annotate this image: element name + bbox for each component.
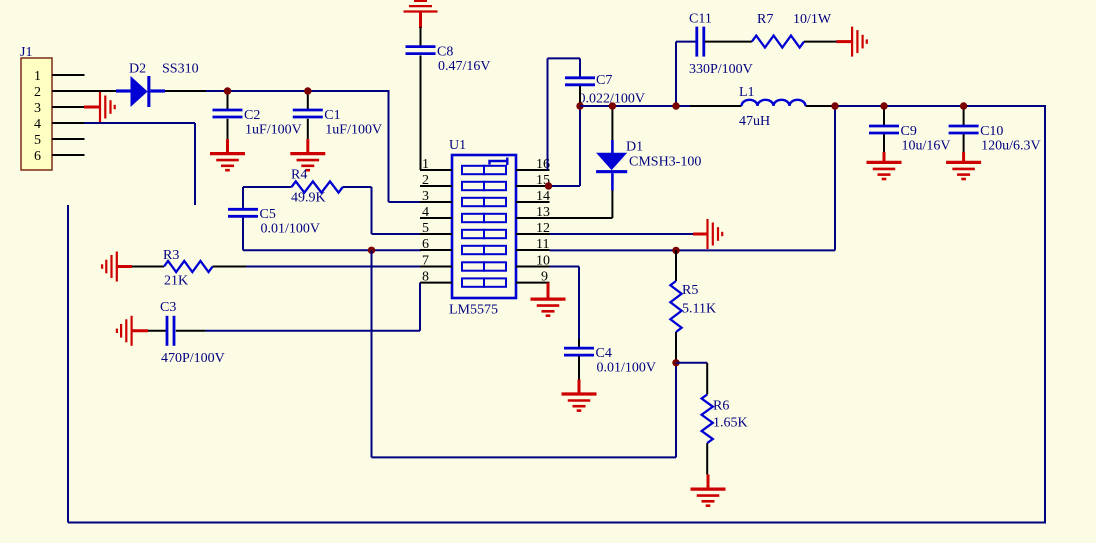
svg-text:330P/100V: 330P/100V (689, 62, 753, 77)
wire left side down (67, 205, 69, 523)
ground above C8 (inverted) (404, 10, 438, 12)
ground at R7 (837, 40, 853, 43)
svg-text:J1: J1 (20, 45, 32, 60)
wire R7 to ground (804, 41, 837, 43)
svg-text:0.01/100V: 0.01/100V (261, 222, 321, 237)
capacitor C8 (420, 27, 422, 46)
diode D2 (116, 89, 131, 92)
svg-text:3: 3 (422, 189, 429, 204)
wire right side up (1044, 106, 1046, 523)
svg-text:120u/6.3V: 120u/6.3V (981, 138, 1041, 153)
svg-text:3: 3 (34, 101, 41, 116)
diode D1 (611, 106, 613, 140)
svg-text:C9: C9 (901, 124, 917, 139)
svg-text:5: 5 (34, 133, 41, 148)
svg-text:D1: D1 (626, 140, 643, 155)
node: junction pin6 feedback (368, 247, 375, 254)
U1 pin 12 (516, 233, 550, 235)
capacitor C1 (307, 91, 309, 109)
U1 pin 15 (516, 185, 550, 187)
U1 internal pad row (462, 230, 484, 238)
resistor R3 (132, 266, 164, 268)
node: junction D2/C2 (224, 87, 231, 94)
svg-text:9: 9 (541, 270, 548, 285)
svg-text:C11: C11 (689, 12, 712, 27)
node: junction rail/C10 (960, 102, 967, 109)
U1 pin 16 (516, 169, 550, 171)
node: junction pin15 (545, 182, 552, 189)
ground under C2 (226, 139, 229, 154)
U1 pin 10 (516, 266, 550, 268)
svg-text:12: 12 (536, 221, 550, 236)
ground under R6 (707, 474, 710, 489)
U1 internal pad row (462, 246, 484, 254)
U1 pin 14 (516, 201, 550, 203)
capacitor C5 (242, 187, 244, 208)
wire C8 to U1 pin1 (420, 55, 422, 170)
node: junction pin11/R5 (672, 247, 679, 254)
ground under C10 (962, 152, 965, 163)
capacitor C11 (695, 27, 698, 57)
resistor R5 (675, 250, 677, 281)
svg-text:C1: C1 (324, 108, 340, 123)
svg-text:1uF/100V: 1uF/100V (245, 122, 302, 137)
wire pin12 to ground (550, 233, 694, 235)
wire pin10 to C4 (550, 266, 580, 268)
wire J1 pin2 to D2 (84, 90, 116, 92)
U1 internal pad row (462, 278, 484, 286)
capacitor C7 (565, 76, 595, 79)
wire pin16 to C7 (547, 58, 549, 170)
wire pin11 to output (550, 249, 836, 251)
svg-text:0.47/16V: 0.47/16V (438, 59, 491, 74)
wire bottom rail (68, 522, 1046, 524)
svg-text:0.01/100V: 0.01/100V (597, 361, 657, 376)
wire C3 to U1 pin8 (176, 330, 206, 332)
capacitor C3 (148, 330, 167, 332)
ground at R3 (116, 252, 118, 282)
capacitor C9 (883, 106, 885, 125)
ground at J1 pin3 (84, 106, 100, 109)
U1 pin 9 (516, 282, 550, 284)
capacitor C10 (963, 106, 965, 125)
svg-text:2: 2 (422, 173, 429, 188)
node: junction rail/C11 (672, 102, 679, 109)
ground at pin12 (693, 233, 708, 236)
wire D1 to pin13 (611, 173, 614, 190)
J1 pin stub (52, 106, 85, 108)
svg-text:R7: R7 (757, 12, 773, 27)
U1 pin 13 (516, 217, 550, 219)
U1 pin 6 (420, 249, 452, 251)
svg-text:LM5575: LM5575 (449, 303, 498, 318)
capacitor C2 (227, 91, 229, 109)
U1 pin 2 (420, 185, 452, 187)
wire R5 node to R6 (676, 362, 707, 364)
resistor R6 (706, 363, 708, 395)
svg-text:6: 6 (422, 237, 429, 252)
U1 pin 3 (420, 201, 452, 203)
svg-text:L1: L1 (739, 85, 755, 100)
svg-text:SS310: SS310 (162, 62, 199, 77)
svg-text:C5: C5 (260, 207, 276, 222)
wire R4 right to U1 pin5 (371, 187, 373, 234)
U1 internal pad row (462, 166, 484, 174)
node: junction rail/pin11 (831, 102, 838, 109)
U1 pin 8 (420, 282, 452, 284)
wire pin15 to rail under C7 (550, 185, 581, 187)
svg-text:1: 1 (422, 157, 429, 172)
node: junction C7/SW rail (576, 102, 583, 109)
svg-text:R6: R6 (713, 399, 729, 414)
U1 internal pad row (462, 214, 484, 222)
U1 pin 7 (420, 266, 452, 268)
connector J1 (21, 58, 52, 170)
wire down to U1 pin3 (388, 91, 390, 202)
svg-text:1: 1 (34, 69, 41, 84)
svg-text:470P/100V: 470P/100V (161, 351, 225, 366)
U1 pin 1 (420, 169, 452, 171)
J1 pin stub (52, 122, 85, 124)
op-amp U1 (LM5575 regulator) body (452, 155, 516, 298)
svg-text:D2: D2 (129, 62, 146, 77)
U1 internal pad row (462, 198, 484, 206)
svg-text:C4: C4 (596, 346, 612, 361)
node: junction R5/R6 (672, 359, 679, 366)
ground at C3 (131, 316, 133, 346)
resistor R7 (752, 36, 804, 48)
ground under C9 (883, 152, 886, 163)
svg-text:8: 8 (422, 270, 429, 285)
svg-text:10u/16V: 10u/16V (902, 138, 951, 153)
wire J1 pin4 (VIN- loop) (84, 122, 195, 124)
svg-text:47uH: 47uH (739, 114, 770, 129)
svg-text:11: 11 (536, 237, 549, 252)
wire R3 to U1 pin7 (213, 266, 246, 268)
node: junction D2/C1 (304, 87, 311, 94)
node: junction rail/C9 (880, 102, 887, 109)
svg-text:10: 10 (536, 254, 550, 269)
svg-text:C2: C2 (244, 108, 260, 123)
wire C11 to R7 (705, 41, 752, 43)
J1 pin stub (52, 154, 85, 156)
svg-text:49.9K: 49.9K (291, 191, 326, 206)
U1 pin 4 (420, 217, 452, 219)
ground under C1 (306, 139, 309, 154)
U1 pin-1 mark (490, 158, 508, 166)
svg-text:C8: C8 (437, 45, 453, 60)
wire up to R5/R6 node (675, 363, 677, 458)
svg-text:5.11K: 5.11K (682, 302, 716, 317)
svg-text:13: 13 (536, 205, 550, 220)
svg-text:4: 4 (422, 205, 429, 220)
svg-text:1uF/100V: 1uF/100V (325, 122, 382, 137)
svg-text:1.65K: 1.65K (713, 416, 748, 431)
svg-text:R4: R4 (291, 168, 307, 183)
SW output rail (580, 105, 690, 107)
svg-text:CMSH3-100: CMSH3-100 (629, 155, 701, 170)
wire down from pin6 node (371, 250, 373, 457)
ground at pin9 (547, 283, 550, 300)
J1 pin stub (52, 74, 85, 76)
svg-text:5: 5 (422, 221, 429, 236)
svg-text:U1: U1 (449, 138, 466, 153)
svg-text:C10: C10 (980, 124, 1003, 139)
svg-text:14: 14 (536, 189, 550, 204)
wire bottom feedback (372, 456, 677, 458)
wire rail to C11 (675, 42, 677, 106)
J1 pin stub (52, 138, 85, 140)
svg-text:R5: R5 (682, 283, 698, 298)
U1 pin 5 (420, 233, 452, 235)
wire D2 to C2/C1 (165, 90, 206, 92)
node: junction D1/rail (609, 102, 616, 109)
wire (194, 123, 196, 205)
svg-text:4: 4 (34, 117, 41, 132)
svg-text:7: 7 (422, 254, 429, 269)
U1 internal pad row (462, 182, 484, 190)
capacitor C4 (564, 347, 594, 350)
svg-text:21K: 21K (164, 274, 188, 289)
wire C5 to U1 pin6 (243, 249, 421, 251)
J1 pin stub (52, 90, 85, 92)
resistor R4 (243, 186, 292, 188)
wire (68, 194, 205, 196)
U1 pin 11 (516, 249, 550, 251)
svg-text:6: 6 (34, 149, 41, 164)
svg-text:C7: C7 (596, 73, 612, 88)
svg-text:R3: R3 (163, 248, 179, 263)
svg-text:10/1W: 10/1W (793, 12, 832, 27)
ground under C4 (578, 380, 581, 395)
U1 internal pad row (462, 262, 484, 270)
svg-text:C3: C3 (160, 300, 176, 315)
svg-text:2: 2 (34, 85, 41, 100)
